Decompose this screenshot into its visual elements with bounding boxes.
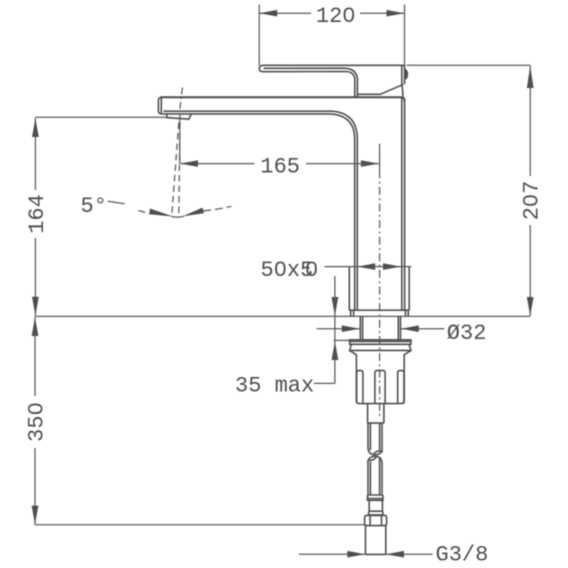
5 degree arc apex segment <box>172 216 185 217</box>
dimension 164: dimension line upper segment <box>34 118 36 190</box>
washer plate inner top line <box>350 340 411 342</box>
dimension 350: top arrowhead <box>32 317 39 336</box>
fitting neck <box>369 500 382 511</box>
dimension 120: dimension line left segment <box>259 12 311 14</box>
svg-text:165: 165 <box>260 155 300 180</box>
nut flare cone <box>350 344 411 350</box>
spout tip outer edge <box>158 97 354 310</box>
pipe break lower lens <box>368 456 376 462</box>
5 degree label leader dash <box>108 201 125 204</box>
dimension diameter 32: line left part <box>317 328 360 330</box>
svg-text:Ø32: Ø32 <box>447 321 487 346</box>
dimension 164: bottom arrowhead <box>32 297 39 316</box>
dimension 164: dimension line lower segment <box>34 238 36 316</box>
dimension 50x50: right arrowhead <box>383 263 401 270</box>
cartridge cap chamfer diagonal <box>380 84 403 94</box>
stream dashed line vertical <box>179 123 180 216</box>
lever underside upper line with corner <box>264 68 358 97</box>
dimension G3/8: line left part <box>299 553 365 555</box>
dimension 35 max: extension line at nut plate <box>334 339 351 341</box>
dimension 165: right extension on centerline <box>379 144 381 171</box>
dimension 207: top extension line <box>407 64 531 66</box>
fitting step <box>369 511 383 515</box>
spout outlet aerator <box>167 114 192 120</box>
dimension 165: right arrowhead <box>361 160 379 167</box>
dimension 35 max: leader to text <box>314 382 335 384</box>
supply hose upper segment walls <box>368 423 382 453</box>
svg-text:G3/8: G3/8 <box>436 543 489 568</box>
dimension 120: left extension line <box>258 5 260 66</box>
hex nut of G3/8 connector <box>365 515 387 525</box>
dimension 35 max: vertical line <box>334 276 336 383</box>
dimension diameter 32: right arrowhead pointing left <box>401 325 419 332</box>
svg-text:5°: 5° <box>81 194 107 219</box>
threaded shank left wall <box>360 316 362 339</box>
threaded shank right wall <box>398 316 400 339</box>
base plate sides <box>351 310 409 316</box>
zero dot patches <box>347 12 352 17</box>
spout underside upper line into body inner front edge <box>164 111 358 310</box>
dimension 350: dimension line lower segment <box>34 448 36 525</box>
base cover right outer line <box>408 267 410 311</box>
dimension diameter 32: line right part <box>401 328 445 330</box>
cartridge cap right curve <box>402 85 403 96</box>
mounting surface line <box>35 315 530 317</box>
threaded rod below nut <box>368 404 384 424</box>
5 degree arc left arrowhead <box>149 209 173 217</box>
dimension 50x50: leader line <box>325 266 412 268</box>
body right edge inner <box>401 98 403 310</box>
dimension 120: dimension line right segment <box>360 12 405 14</box>
pipe break symbol upper squiggle <box>368 448 375 455</box>
hose end fitting collar <box>368 495 383 500</box>
lever handle outline <box>259 65 404 97</box>
dimension 207: top arrowhead <box>527 66 534 88</box>
pipe break symbol lower squiggle <box>376 457 383 464</box>
mounting nut washer plate <box>350 340 411 345</box>
dimension diameter 32: left arrowhead pointing right <box>342 325 360 332</box>
dimension 50x50: left arrowhead <box>357 263 375 270</box>
dimension 120: left arrowhead <box>259 10 277 17</box>
base plate top line <box>349 309 409 311</box>
dimension 165: left arrowhead <box>180 160 198 167</box>
dimension G3/8: left arrowhead pointing right <box>347 551 365 558</box>
spout top / body top line <box>161 97 405 101</box>
dimension 120: right arrowhead <box>387 10 405 17</box>
svg-text:164: 164 <box>25 194 50 234</box>
lever right edge outer <box>404 65 406 84</box>
base cover left outer line <box>348 267 350 311</box>
5 degree arc right arrowhead <box>182 208 204 217</box>
nut left rib <box>357 371 363 404</box>
body right edge outer <box>404 99 406 310</box>
dimension 120: right extension line <box>404 5 406 85</box>
dimension 207: dimension line upper segment <box>529 66 531 176</box>
stream extension line to 165 dimension <box>179 113 181 164</box>
dimension 350: bottom extension line <box>35 524 365 526</box>
cartridge cap ledge <box>357 93 380 95</box>
dimension G3/8: right arrowhead pointing left <box>386 551 404 558</box>
lever pivot pin dot <box>405 69 409 80</box>
dimension 207: bottom arrowhead <box>527 297 534 316</box>
dimension 164: top arrowhead <box>32 118 39 137</box>
spout tip inner face line <box>160 98 162 113</box>
nut right rib <box>398 371 404 404</box>
G3/8 end pipe <box>366 526 386 555</box>
stream dashed line tilted 5 degrees <box>172 123 179 216</box>
pipe break upper lens <box>373 450 381 456</box>
nut shoulders and sides <box>350 350 411 403</box>
5 degree swing arc dashed left part <box>139 211 153 215</box>
dimension 164: top extension line <box>35 116 167 118</box>
dimension 350: bottom arrowhead <box>32 506 39 525</box>
faucet vertical centerline dash-dot <box>379 170 381 418</box>
dimension 207: dimension line lower segment <box>529 225 531 316</box>
dimension 165: dimension line <box>180 163 255 165</box>
nut center rib <box>375 371 385 404</box>
dimension 35 max: up arrowhead below nut plate <box>332 341 339 360</box>
dimension G3/8: line right part <box>386 553 433 555</box>
svg-text:35 max: 35 max <box>235 373 314 398</box>
supply hose lower segment walls <box>368 458 382 495</box>
dimension 350: dimension line upper segment <box>34 317 36 396</box>
water stream axis dash-dot through spout <box>180 88 183 113</box>
5 degree swing arc dashed right part <box>203 206 232 211</box>
lever right edge inner <box>401 65 403 85</box>
dimension 35 max: down arrowhead above surface <box>332 297 339 316</box>
